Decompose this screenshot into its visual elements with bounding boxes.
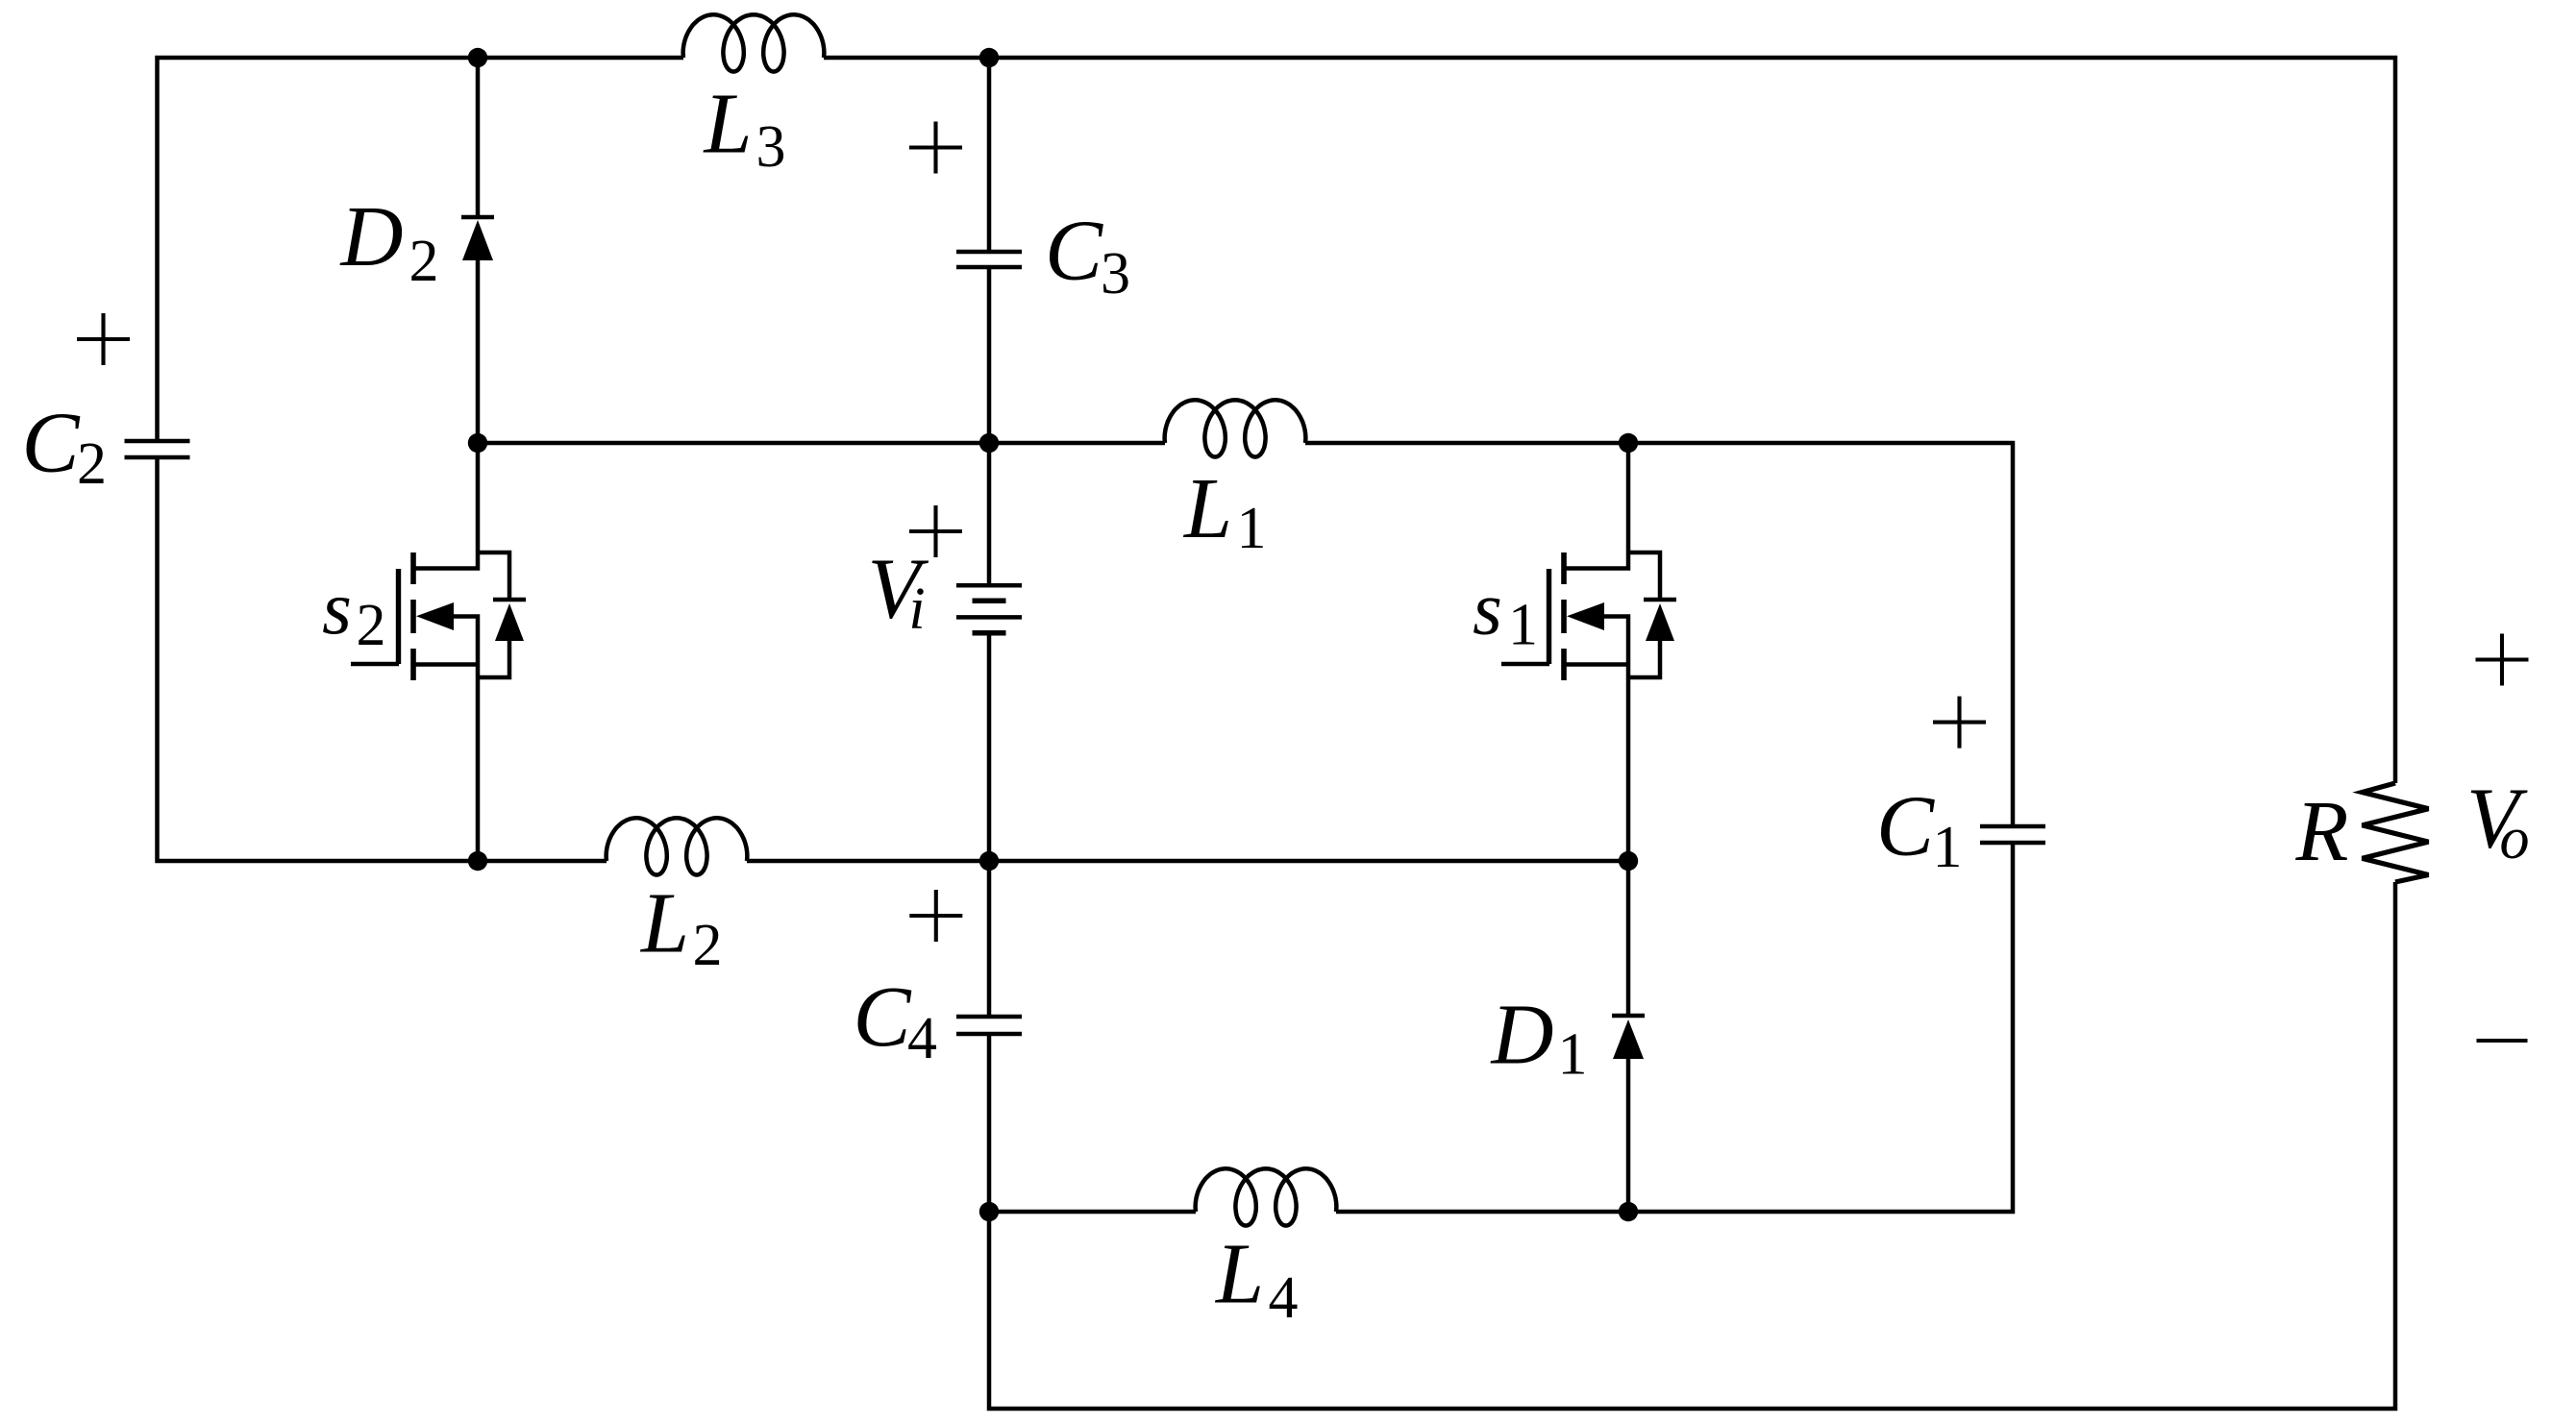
svg-text:2: 2 — [77, 431, 107, 497]
svg-text:2: 2 — [409, 229, 439, 294]
svg-text:C: C — [21, 396, 80, 491]
svg-text:1: 1 — [1933, 815, 1963, 880]
svg-text:1: 1 — [1558, 1022, 1588, 1088]
svg-text:s: s — [322, 567, 352, 651]
svg-text:L: L — [1182, 461, 1232, 556]
svg-text:C: C — [1876, 779, 1935, 874]
svg-text:L: L — [1214, 1227, 1264, 1322]
svg-text:1: 1 — [1508, 593, 1538, 658]
svg-text:D: D — [339, 189, 404, 284]
svg-text:s: s — [1473, 568, 1502, 651]
svg-text:3: 3 — [756, 114, 786, 180]
svg-text:1: 1 — [1237, 496, 1267, 561]
svg-text:3: 3 — [1101, 241, 1130, 307]
svg-text:C: C — [853, 970, 911, 1065]
svg-text:C: C — [1045, 204, 1103, 299]
svg-text:i: i — [908, 577, 925, 642]
svg-text:L: L — [639, 876, 689, 971]
svg-text:R: R — [2295, 784, 2349, 879]
svg-text:2: 2 — [693, 913, 723, 978]
svg-text:2: 2 — [357, 593, 386, 658]
svg-text:D: D — [1490, 988, 1554, 1083]
svg-text:o: o — [2500, 806, 2530, 872]
svg-text:4: 4 — [1269, 1265, 1299, 1331]
svg-text:L: L — [702, 77, 752, 172]
svg-text:4: 4 — [907, 1006, 937, 1071]
